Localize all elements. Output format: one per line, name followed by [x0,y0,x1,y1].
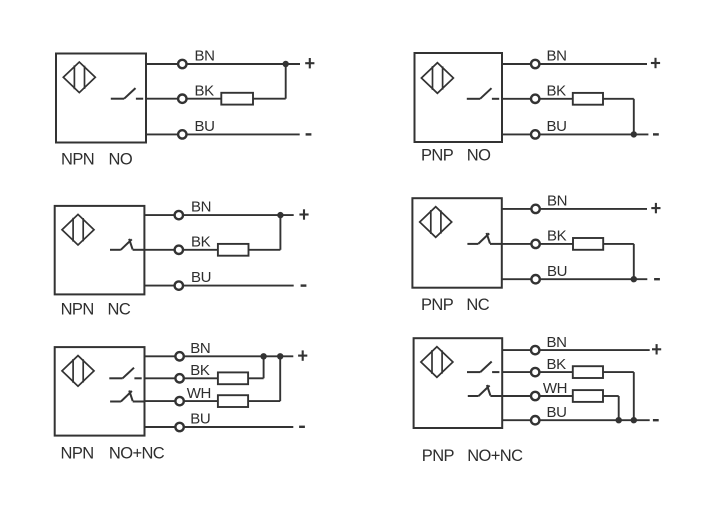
svg-text:PNP: PNP [422,447,455,465]
svg-text:PNP: PNP [421,146,454,164]
NO switch contact (NPN NO+NC) [109,368,141,379]
svg-text:NC: NC [466,296,489,314]
terminal circle BN (PNP NO) [531,60,539,68]
sensor symbol (diamond) (NPN NC) [62,214,94,245]
svg-text:BU: BU [547,263,567,280]
svg-text:BK: BK [547,356,567,373]
svg-text:NO: NO [109,150,133,168]
svg-text:BU: BU [547,404,567,421]
minus terminal mark (NPN NO+NC) [299,426,305,428]
svg-text:NO+NC: NO+NC [467,447,523,465]
terminal circle BU (PNP NO) [531,130,539,138]
terminal circle BK (PNP NO) [531,95,539,103]
terminal circle WH (PNP NO+NC) [531,392,539,400]
sensor symbol (diamond) (NPN NO) [63,62,95,93]
junction node on BU (PNP NC) [631,276,637,282]
sensor symbol (diamond) (PNP NC) [420,207,452,238]
terminal circle BN (PNP NC) [531,205,539,213]
svg-text:PNP: PNP [421,296,454,314]
vertical wire BK-to-BN node (NPN NC) [279,214,281,250]
terminal circle BK (NPN NO) [178,95,186,103]
minus terminal mark (NPN NO) [306,133,312,135]
plus terminal mark (PNP NO+NC) [652,344,661,354]
wire BK segment box-to-resistor (NPN NO) [146,98,221,100]
minus terminal mark (PNP NO) [653,133,659,135]
terminal circle BU (NPN NO) [178,130,186,138]
sensor symbol (diamond) (PNP NO+NC) [421,347,453,378]
svg-text:WH: WH [543,380,567,397]
NC switch contact (PNP NC) [467,233,501,244]
wire WH segment box-to-resistor (NPN NO+NC) [145,400,218,402]
terminal circle WH (NPN NO+NC) [175,397,183,405]
sensor symbol (diamond) (PNP NO) [421,63,453,94]
svg-text:BN: BN [547,193,567,210]
sensor body box (PNP NO) [415,53,503,142]
wire BU (NPN NO+NC) [145,426,294,428]
wire BK segment box-to-resistor (PNP NO+NC) [502,371,573,373]
sensor body box (NPN NO+NC) [55,347,145,436]
vertical wire WH-to-BU node (PNP NO+NC) [618,396,620,420]
plus terminal mark (NPN NO) [305,58,314,68]
svg-text:BK: BK [190,362,210,379]
svg-text:BN: BN [547,334,567,351]
NO switch contact (PNP NO+NC) [467,362,499,373]
terminal circle BU (PNP NC) [531,275,539,283]
svg-text:NPN: NPN [61,150,94,168]
wire BU (NPN NC) [144,285,293,287]
NO switch contact (PNP NO) [467,88,499,99]
svg-text:BU: BU [547,118,567,135]
junction node on BU (PNP NO) [631,131,637,137]
terminal circle BU (NPN NC) [175,281,183,289]
junction node BK on BN (NPN NO+NC) [260,353,266,359]
terminal circle BK (NPN NO+NC) [175,374,183,382]
wire BU (PNP NO) [502,133,648,135]
wire resistor-to-drop (PNP NO) [603,98,634,100]
junction node WH on BU (PNP NO+NC) [616,417,622,423]
svg-text:BU: BU [195,118,215,135]
wire WH resistor-to-node (NPN NO+NC) [248,400,280,402]
wire BK segment box-to-resistor (NPN NC) [144,249,218,251]
plus terminal mark (NPN NO+NC) [298,350,307,360]
load resistor on BK (PNP NC) [573,238,603,250]
svg-text:BN: BN [190,340,210,357]
junction node on BN (NPN NC) [277,212,283,218]
wire BK segment box-to-resistor (NPN NO+NC) [145,377,218,379]
minus terminal mark (PNP NC) [654,278,660,280]
wire BN (NPN NO) [146,63,300,65]
vertical wire BK-to-BN node (NPN NO+NC) [263,355,265,378]
plus terminal mark (PNP NC) [651,203,660,213]
load resistor on WH (PNP NO+NC) [573,390,603,402]
wire BK resistor-to-drop (PNP NO+NC) [603,371,634,373]
load resistor on WH (NPN NO+NC) [218,395,248,407]
svg-text:BK: BK [191,233,211,250]
wire BU (PNP NC) [502,278,648,280]
svg-text:NO: NO [467,146,491,164]
svg-text:NO+NC: NO+NC [109,445,165,463]
terminal circle BK (NPN NC) [175,246,183,254]
terminal circle BK (PNP NC) [531,240,539,248]
wire BK segment box-to-resistor (PNP NO) [502,98,573,100]
plus terminal mark (PNP NO) [651,58,660,68]
sensor body box (NPN NO) [56,54,146,143]
vertical wire BK-to-BU node (PNP NC) [633,244,635,279]
wire BN (PNP NC) [502,208,647,210]
svg-text:BU: BU [191,269,211,286]
wire BN (NPN NC) [144,214,293,216]
terminal circle BU (NPN NO+NC) [175,423,183,431]
svg-text:BK: BK [547,82,567,99]
vertical wire BK-to-BU node (PNP NO+NC) [633,372,635,420]
wire BU (PNP NO+NC) [502,419,650,421]
wire WH resistor-to-drop (PNP NO+NC) [603,395,619,397]
svg-text:BU: BU [190,411,210,428]
vertical wire BK-to-BU node (PNP NO) [633,99,635,135]
terminal circle BN (NPN NO+NC) [175,352,183,360]
sensor body box (PNP NC) [412,198,501,288]
NC switch contact (PNP NO+NC) [468,385,502,396]
svg-text:BK: BK [547,228,567,245]
plus terminal mark (NPN NC) [299,209,308,219]
svg-text:WH: WH [187,385,211,402]
load resistor on BK (PNP NO+NC) [573,366,603,378]
svg-text:BN: BN [547,48,567,65]
svg-text:BN: BN [191,199,211,216]
svg-text:NPN: NPN [61,300,94,318]
vertical wire BK-to-BN node (NPN NO) [285,63,287,99]
sensor body box (PNP NO+NC) [414,338,503,428]
vertical wire WH-to-BN node (NPN NO+NC) [279,355,281,401]
wire resistor-to-drop (PNP NC) [603,243,634,245]
terminal circle BN (NPN NO) [178,60,186,68]
terminal circle BU (PNP NO+NC) [531,416,539,424]
svg-text:NPN: NPN [61,445,94,463]
minus terminal mark (PNP NO+NC) [653,419,659,421]
junction node WH on BN (NPN NO+NC) [277,353,283,359]
wire BN (NPN NO+NC) [145,355,294,357]
wire BN (PNP NO+NC) [502,349,650,351]
wire BU (NPN NO) [146,133,300,135]
wire WH segment box-to-resistor (PNP NO+NC) [502,395,573,397]
load resistor on BK (PNP NO) [573,93,603,105]
svg-text:BN: BN [195,48,215,65]
svg-text:NC: NC [108,300,131,318]
NO switch contact (NPN NO) [111,88,143,99]
terminal circle BK (PNP NO+NC) [531,368,539,376]
sensor body box (NPN NC) [55,206,145,295]
NC switch contact (NPN NC) [110,239,144,250]
minus terminal mark (NPN NC) [301,284,307,286]
sensor symbol (diamond) (NPN NO+NC) [62,356,94,387]
load resistor on BK (NPN NO+NC) [218,372,248,384]
wire BK segment box-to-resistor (PNP NC) [502,243,573,245]
wire resistor-to-node (NPN NC) [249,249,281,251]
wire BN (PNP NO) [502,63,647,65]
load resistor on BK (NPN NO) [221,93,253,105]
terminal circle BN (NPN NC) [175,211,183,219]
junction node BK on BU (PNP NO+NC) [631,417,637,423]
terminal circle BN (PNP NO+NC) [531,346,539,354]
NC switch contact (NPN NO+NC) [110,391,144,402]
wire resistor-to-node (NPN NO) [253,98,286,100]
wire BK resistor-to-node (NPN NO+NC) [248,377,264,379]
svg-text:BK: BK [195,82,215,99]
load resistor on BK (NPN NC) [218,244,249,256]
junction node on BN (NPN NO) [283,61,289,67]
